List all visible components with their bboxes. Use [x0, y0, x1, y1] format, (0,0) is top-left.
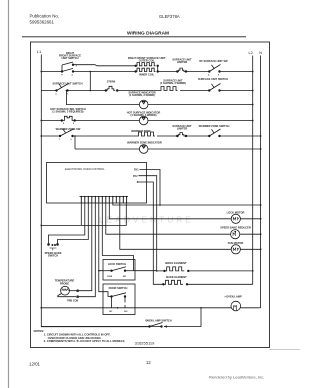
svg-text:LIMITER: LIMITER: [177, 126, 188, 130]
wire pin6 to lock switch and door switch: [99, 203, 103, 292]
wire pin7 to lock switch NO side: [102, 203, 133, 271]
svg-text:(1 SHOWN, 3 WIRED): (1 SHOWN, 3 WIRED): [130, 113, 156, 117]
door switch SW2 box: [103, 284, 135, 315]
switch S7 warmer zone switch right: [209, 129, 221, 137]
svg-text:L1: L1: [37, 49, 42, 54]
svg-text:OUTER COIL: OUTER COIL: [139, 59, 155, 63]
junction dots oven lamp rung: [40, 307, 42, 309]
switch S3 surface unit switch rung2: [56, 84, 69, 92]
svg-text:P1: P1: [61, 75, 63, 77]
wire rung4 hot surface indicator: [41, 120, 252, 122]
EOC connector P1 bar: [80, 196, 129, 198]
lamp DS2 hot surface indicator: [139, 116, 148, 125]
bus L2: [252, 56, 254, 285]
limiter F2 thermal limiter rung2: [105, 86, 118, 91]
wire pin9 to speed bake reducer rung: [106, 203, 261, 234]
junction dot EOC out1 on N line: [159, 204, 161, 206]
svg-text:SWITCH: SWITCH: [48, 254, 58, 258]
limiter F3 surface unit limiter rung5: [177, 133, 187, 137]
page edge shadow left: [8, 0, 10, 388]
svg-text:NO: NO: [124, 311, 128, 313]
svg-text:(1 SHOWN, 3 WIRED): (1 SHOWN, 3 WIRED): [160, 81, 186, 85]
svg-text:RY2: RY2: [133, 175, 138, 178]
junction dots right bus: [252, 71, 254, 73]
svg-text:INNER COIL: INNER COIL: [139, 73, 154, 77]
element R1a outer coil: [135, 63, 159, 67]
svg-text:LEADVENTURE: LEADVENTURE: [99, 215, 194, 225]
wire rung1 lower: [41, 71, 252, 73]
svg-text:2700W: 2700W: [107, 79, 116, 83]
junction dot EOC out3 start: [137, 181, 139, 183]
motor M1 lock motor: [231, 214, 240, 223]
bus L1: [41, 55, 149, 327]
switch S8 speed bake switch: [48, 244, 59, 251]
wire pin1 down: [80, 203, 82, 225]
svg-text:BROIL ELEMENT: BROIL ELEMENT: [165, 261, 187, 265]
wire oven lamp switch loop: [41, 308, 201, 327]
svg-text:ELECTRONIC OVEN CONTROL: ELECTRONIC OVEN CONTROL: [65, 167, 105, 171]
wire rung1 upper branch: [73, 65, 158, 72]
title underline: [22, 36, 246, 38]
svg-text:OVEN LAMP: OVEN LAMP: [226, 295, 242, 299]
svg-text:OVEN LAMP SWITCH: OVEN LAMP SWITCH: [145, 319, 171, 323]
switch S6 warmer zone switch left: [59, 129, 73, 137]
switch S2 RF surface unit sw: [209, 65, 221, 73]
junction dots tie points: [90, 71, 92, 73]
junction dots N bus lower: [260, 204, 262, 206]
motor M2 speed bake reducer: [231, 230, 240, 239]
door switch contacts: [103, 292, 126, 308]
svg-text:LOCK MOTOR: LOCK MOTOR: [227, 210, 245, 214]
switch S9 oven lamp switch: [149, 323, 167, 328]
svg-text:H1: H1: [66, 94, 68, 96]
wire rung5 warmer zone: [41, 135, 260, 137]
svg-text:WIRING DIAGRAM: WIRING DIAGRAM: [127, 31, 169, 37]
svg-text:RY1: RY1: [134, 169, 139, 172]
wire EOC out2 to broil feed: [139, 176, 157, 271]
junction dots left bus: [40, 71, 42, 73]
wire oven lamp rung to N: [259, 307, 261, 309]
EOC U1 electronic oven control box: [47, 163, 147, 204]
probe connector terminals: [77, 290, 79, 298]
page edge shadow bottom right: [269, 349, 300, 351]
svg-text:UNIT SWITCH: UNIT SWITCH: [61, 56, 78, 60]
svg-text:(1 SHOWN, 3 WIRED): (1 SHOWN, 3 WIRED): [129, 93, 155, 97]
svg-text:L1: L1: [55, 94, 57, 96]
svg-text:WARMER ZONE: WARMER ZONE: [131, 129, 151, 133]
bus N: [260, 56, 262, 308]
element R1b inner coil: [135, 68, 159, 72]
svg-text:WARMER ZONE SW: WARMER ZONE SW: [56, 127, 81, 131]
wire EOC out1 to N line: [140, 170, 161, 206]
svg-text:SURFACE UNIT SWITCH: SURFACE UNIT SWITCH: [198, 77, 228, 81]
svg-text:NO: NO: [123, 276, 127, 278]
wire pin3 to speed bake sw right: [58, 203, 89, 244]
svg-text:FAN MOTOR: FAN MOTOR: [228, 241, 244, 245]
svg-text:N: N: [259, 51, 262, 55]
wire rung6 warmer zone indicator: [75, 136, 261, 149]
thermal switch S5 hot surface: [61, 116, 75, 124]
svg-text:GLEF378A: GLEF378A: [159, 14, 180, 19]
wire rung2: [41, 90, 252, 92]
junction dot broil at L2: [252, 270, 254, 272]
EOC connector pin dots: [81, 196, 128, 197]
wire oven lamp rung: [41, 307, 258, 309]
wire rung3 surface indicator: [66, 91, 252, 105]
svg-text:RF SURFACE UNIT SW: RF SURFACE UNIT SW: [199, 59, 228, 63]
svg-text:PRB CON: PRB CON: [67, 300, 78, 303]
lamp DS3 warmer zone indicator: [139, 145, 148, 154]
element R4 broil element: [164, 267, 253, 272]
EOC connector pins: [81, 197, 126, 203]
lock switch contacts: [103, 267, 135, 272]
wire pin10 to neutral line: [113, 203, 261, 205]
wire pin5 to probe terminal 2: [79, 203, 95, 297]
wire pin2 to speed bake sw left: [49, 203, 85, 244]
probe RT1 temperature probe: [58, 286, 77, 296]
junction dot broil feed: [156, 270, 158, 272]
svg-text:12: 12: [146, 360, 151, 365]
svg-text:LOCK SWITCH: LOCK SWITCH: [108, 262, 126, 266]
svg-text:316255119: 316255119: [135, 341, 156, 346]
element R5 bake element: [163, 280, 253, 285]
limiter F1 surface unit limiter: [177, 68, 187, 72]
motor M3 fan motor: [231, 245, 240, 254]
svg-text:SPEED BAKE REDUCER: SPEED BAKE REDUCER: [220, 226, 251, 230]
lock switch SW1 box: [103, 260, 135, 281]
switch S4 surface unit switch rung2 right: [209, 84, 221, 92]
switch S1 right front surface unit (double pole): [61, 62, 74, 72]
wire lock switch to broil rung: [135, 270, 165, 272]
wire L1 to connector row: [41, 203, 126, 225]
EOC relay pin labels: [133, 169, 139, 178]
schematic border: [31, 42, 270, 348]
wire pin12 to fan motor rung: [120, 203, 261, 249]
wire pin8 to lock motor rung: [109, 203, 260, 219]
svg-text:PROBE: PROBE: [60, 281, 69, 285]
svg-text:NC: NC: [109, 311, 113, 313]
svg-text:5995362661: 5995362661: [30, 20, 55, 25]
svg-text:Publication No.: Publication No.: [30, 14, 60, 19]
svg-text:WARMER ZONE INDICATOR: WARMER ZONE INDICATOR: [127, 140, 162, 144]
wire rung1 to rung2 tie: [89, 72, 91, 91]
svg-text:BAKE ELEMENT: BAKE ELEMENT: [166, 275, 187, 279]
wire EOC out3 to bake feed: [138, 182, 164, 284]
svg-text:Rendered by LeadVenture, Inc.: Rendered by LeadVenture, Inc.: [209, 375, 264, 380]
lamp DS1 surface indicator: [139, 100, 148, 109]
junction dot lock input tee: [98, 270, 100, 272]
svg-text:SURFACE UNIT SWITCH: SURFACE UNIT SWITCH: [52, 82, 82, 86]
element R3 warmer zone coil: [137, 132, 155, 136]
element R2 surface unit coil: [160, 87, 181, 91]
svg-text:WARMER ZONE SWITCH: WARMER ZONE SWITCH: [199, 124, 230, 128]
junction dot L1 connector feed: [40, 225, 42, 227]
svg-text:L2: L2: [249, 51, 253, 55]
svg-text:(1 SHOWN, 3 REQUIRED): (1 SHOWN, 3 REQUIRED): [52, 109, 83, 113]
svg-text:LIMITER: LIMITER: [177, 60, 188, 64]
svg-text:DOOR SWITCH: DOOR SWITCH: [109, 286, 128, 290]
lamp E1 oven lamp: [231, 301, 241, 311]
svg-text:12/01: 12/01: [29, 362, 41, 367]
svg-text:2. COMPONENTS WITH -✳- DO N: 2. COMPONENTS WITH -✳- DO NOT APPLY TO A…: [44, 339, 126, 343]
svg-text:COM: COM: [107, 276, 112, 278]
wire pin4 to probe terminal 1: [79, 203, 92, 291]
